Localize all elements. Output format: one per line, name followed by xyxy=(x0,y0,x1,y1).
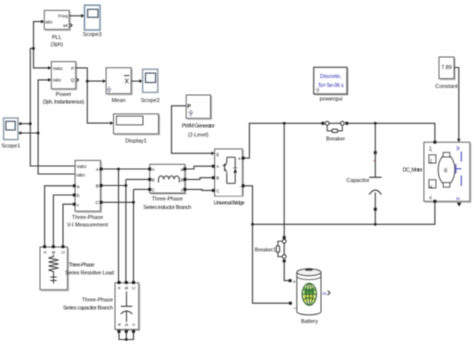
port square VI C xyxy=(100,201,103,204)
capacitor branch icon xyxy=(121,292,133,323)
svg-text:powergui: powergui xyxy=(320,97,343,103)
svg-text:C: C xyxy=(216,188,219,193)
component Capacitor (DC link) xyxy=(369,123,381,224)
arrowhead into Scope3 xyxy=(81,14,84,18)
block Scope3 xyxy=(85,5,101,30)
port square inductor a xyxy=(183,168,186,171)
junction bottom bus to Capacitor xyxy=(374,223,377,226)
universal bridge IGBT/diode icon xyxy=(223,157,237,183)
svg-text:Series inductor Branch: Series inductor Branch xyxy=(143,205,191,211)
arrowhead into Display1 xyxy=(110,121,113,125)
block Breaker xyxy=(321,121,348,132)
svg-text:dc: dc xyxy=(443,167,448,173)
junction bottom bus to battery minus branch xyxy=(251,223,254,226)
block Display1 xyxy=(114,114,160,135)
motor dc armature ellipse xyxy=(438,152,455,187)
svg-text:V-I Measurement: V-I Measurement xyxy=(67,222,109,228)
svg-text:Series capacitor Branch: Series capacitor Branch xyxy=(63,306,113,312)
wire bridge minus to bottom DC bus and motor A- xyxy=(245,186,435,225)
svg-text:B: B xyxy=(152,178,155,184)
svg-text:b: b xyxy=(181,178,184,184)
svg-text:abc: abc xyxy=(45,19,53,24)
block Three-Phase V-I Measurement xyxy=(75,160,101,212)
arrowhead into Scope2 xyxy=(139,79,142,83)
block PWM Generator (2-Level) xyxy=(186,95,211,119)
svg-text:Display1: Display1 xyxy=(125,138,146,144)
arrowhead into PLL abc xyxy=(41,20,44,24)
svg-text:7.89: 7.89 xyxy=(441,65,452,71)
port square VI b xyxy=(73,194,76,197)
motor F+ box xyxy=(429,155,436,163)
port square load C xyxy=(62,245,65,248)
port square capbranch A xyxy=(118,281,121,284)
port square load A xyxy=(43,245,46,248)
svg-text:A-: A- xyxy=(428,195,433,200)
svg-text:Mean: Mean xyxy=(112,98,126,104)
svg-text:+: + xyxy=(373,159,376,164)
svg-text:Universal Bridge: Universal Bridge xyxy=(214,201,245,207)
block Power (3ph, Instantaneous) xyxy=(51,62,76,90)
svg-text:Constant: Constant xyxy=(435,84,458,90)
junction Iabc to Scope1 xyxy=(37,132,40,135)
junction phase A xyxy=(117,168,120,171)
wire inductor c to bridge C xyxy=(186,189,213,190)
svg-text:a: a xyxy=(77,185,80,190)
svg-text:X: X xyxy=(124,79,129,86)
svg-text:P: P xyxy=(187,104,191,110)
port chevron Power Q unconnected xyxy=(76,78,78,82)
svg-text:W: W xyxy=(456,146,461,151)
svg-text:C: C xyxy=(96,200,100,206)
wire Iabc measurement net (VI Iabc out to Power Iabc, Scope1 in2) xyxy=(22,80,76,174)
wire phase C net xyxy=(103,189,149,281)
svg-text:Series Resistive Load: Series Resistive Load xyxy=(65,270,114,276)
svg-text:P: P xyxy=(71,66,74,71)
port square VI A xyxy=(100,168,103,171)
svg-text:(3ph): (3ph) xyxy=(51,42,64,48)
port chevron PLL wt unconnected xyxy=(70,24,72,28)
arrowhead into Power Vabc xyxy=(48,66,51,70)
svg-text:Three-Phase: Three-Phase xyxy=(69,263,95,269)
block Three-Phase Series inductor Branch xyxy=(150,164,186,194)
svg-text:A+: A+ xyxy=(428,146,433,152)
port square motor A+ xyxy=(433,141,436,144)
port square inductor A xyxy=(148,168,151,171)
wire VI c to load C xyxy=(63,204,73,245)
svg-text:A: A xyxy=(216,164,219,169)
svg-text:_: _ xyxy=(292,304,296,310)
svg-text:+: + xyxy=(293,279,296,285)
svg-text:B: B xyxy=(216,176,219,181)
svg-text:PWM Generator: PWM Generator xyxy=(182,124,215,130)
svg-text:C: C xyxy=(61,251,66,254)
port square VI a xyxy=(73,184,76,187)
svg-text:wt: wt xyxy=(63,23,68,28)
svg-text:B: B xyxy=(124,286,129,289)
svg-text:Scope1: Scope1 xyxy=(1,143,20,149)
svg-text:Capacitor: Capacitor xyxy=(346,178,369,184)
block powergui xyxy=(314,67,348,95)
svg-text:Iabc: Iabc xyxy=(53,78,62,83)
wire PLL Freq to Scope3 xyxy=(69,15,81,17)
svg-text:B: B xyxy=(96,184,99,190)
wire breaker1 branch from top bus to battery plus xyxy=(283,123,285,236)
block Constant 7.89 xyxy=(439,57,455,80)
svg-text:b: b xyxy=(77,193,80,199)
wire battery minus to bottom bus xyxy=(253,224,289,303)
svg-text:a: a xyxy=(181,168,184,173)
wire Vabc measurement net (VI Vabc out to PLL abc, Power Vabc, Scope1 in1) xyxy=(22,22,76,166)
svg-text:Ts= 5e-06 s: Ts= 5e-06 s xyxy=(318,83,344,89)
wire Mean to Scope2 xyxy=(131,80,139,82)
svg-text:B: B xyxy=(51,251,56,254)
arrowhead into Power Iabc xyxy=(48,78,51,82)
svg-text:Three-Phase: Three-Phase xyxy=(82,298,113,304)
arrowhead into motor W xyxy=(457,139,461,142)
junction Vabc net upper xyxy=(32,47,35,50)
wire Power P to Mean and Display1 xyxy=(76,68,111,123)
port square VI c xyxy=(73,203,76,206)
svg-text:C: C xyxy=(152,188,156,194)
svg-text:Discrete,: Discrete, xyxy=(320,74,342,80)
port square capbranch C xyxy=(132,281,135,284)
block DC_Motor xyxy=(424,142,471,202)
motor F- box xyxy=(429,180,436,188)
junction phase C xyxy=(132,201,135,204)
resistor zigzag icon xyxy=(49,255,59,275)
svg-text:C: C xyxy=(131,286,136,289)
port square bridge plus xyxy=(242,157,245,160)
svg-text:E: E xyxy=(456,197,461,200)
svg-text:Iabc: Iabc xyxy=(76,172,86,178)
svg-text:(2-Level): (2-Level) xyxy=(188,133,209,139)
wire capbranch neutral xyxy=(119,333,134,340)
port square capbranch a xyxy=(118,330,121,333)
wire top DC bus right of Breaker to motor A+ xyxy=(348,123,435,140)
svg-text:Scope2: Scope2 xyxy=(141,98,160,104)
arrowhead into Scope1 in1 xyxy=(18,122,21,126)
svg-text:A: A xyxy=(117,286,122,289)
wire phase B net xyxy=(103,179,149,281)
port square bridge minus xyxy=(242,184,245,187)
wire phase A net (VI A to inductor A and capacitor branch A) xyxy=(103,169,149,281)
svg-text:PLL: PLL xyxy=(52,35,62,41)
svg-text:Power: Power xyxy=(56,92,72,98)
arrowhead into Mean xyxy=(103,79,106,83)
wire bridge plus to top DC bus xyxy=(245,123,322,158)
svg-text:m: m xyxy=(323,292,327,297)
junction phase B xyxy=(125,184,128,187)
port square battery plus xyxy=(289,279,292,282)
svg-text:+: + xyxy=(238,157,241,163)
port square load B xyxy=(52,245,55,248)
arrowhead into bridge g xyxy=(211,152,214,156)
port square motor A- xyxy=(433,200,436,203)
svg-text:(3ph, Instantaneous): (3ph, Instantaneous) xyxy=(43,99,85,105)
block Breaker1 xyxy=(276,236,286,262)
battery globe icon xyxy=(302,283,316,305)
wire PWM P to bridge g xyxy=(172,106,212,154)
svg-text:Vabc: Vabc xyxy=(53,66,64,71)
svg-text:Q: Q xyxy=(71,78,75,83)
svg-text:DC_Motor: DC_Motor xyxy=(403,168,423,174)
block Three-Phase Series Resistive Load xyxy=(40,247,68,291)
block Universal Bridge xyxy=(215,149,244,196)
junction P net xyxy=(86,80,89,83)
inductor coil icon xyxy=(159,176,180,183)
port square capbranch B xyxy=(125,281,128,284)
port square capbranch c xyxy=(132,330,135,333)
svg-text:Battery: Battery xyxy=(301,319,318,325)
port square inductor C xyxy=(148,188,151,191)
svg-text:Three-Phase: Three-Phase xyxy=(152,197,183,203)
block Scope2 xyxy=(143,69,158,92)
svg-text:Breaker1: Breaker1 xyxy=(255,248,276,254)
port square capbranch b xyxy=(125,330,128,333)
port square VI B xyxy=(100,184,103,187)
block PLL (3ph) U-PLL xyxy=(44,10,70,30)
svg-text:F+: F+ xyxy=(430,158,434,163)
wire inductor b to bridge B xyxy=(186,178,213,180)
motor shaft icon blue xyxy=(456,152,462,187)
port square battery minus xyxy=(289,302,292,305)
port square bridge C xyxy=(212,189,215,192)
junction top bus to Breaker1 xyxy=(283,122,286,125)
junction top bus to Capacitor xyxy=(374,122,377,125)
wire Constant to DC motor W input xyxy=(454,68,459,140)
wire inductor a to bridge A xyxy=(186,166,213,169)
port square bridge B xyxy=(212,176,215,179)
port chevron battery m unconnected xyxy=(328,291,330,296)
svg-text:Breaker: Breaker xyxy=(326,137,345,143)
svg-text:Freq: Freq xyxy=(58,13,68,18)
svg-text:Vabc: Vabc xyxy=(76,164,87,170)
port square bridge A xyxy=(212,165,215,168)
arrowhead into Scope1 in2 xyxy=(18,131,21,135)
block Battery xyxy=(297,268,321,315)
svg-text:Three-Phase: Three-Phase xyxy=(72,215,103,221)
port square inductor B xyxy=(148,178,151,181)
port square inductor c xyxy=(183,188,186,191)
svg-text:A: A xyxy=(42,251,47,254)
block Three-Phase Series capacitor Branch xyxy=(115,283,140,331)
port square inductor b xyxy=(183,178,186,181)
junction Vabc to Scope1 xyxy=(29,122,32,125)
load series ticks xyxy=(50,274,56,284)
svg-text:Scope3: Scope3 xyxy=(83,32,102,38)
block Scope1 xyxy=(4,118,18,140)
wire VI a to load A xyxy=(45,186,73,245)
wire VI b to load B xyxy=(53,195,72,245)
junction capbranch neutral xyxy=(125,338,128,341)
port chevron motor E unconnected (down) xyxy=(457,203,462,207)
block Mean xyxy=(106,68,132,95)
